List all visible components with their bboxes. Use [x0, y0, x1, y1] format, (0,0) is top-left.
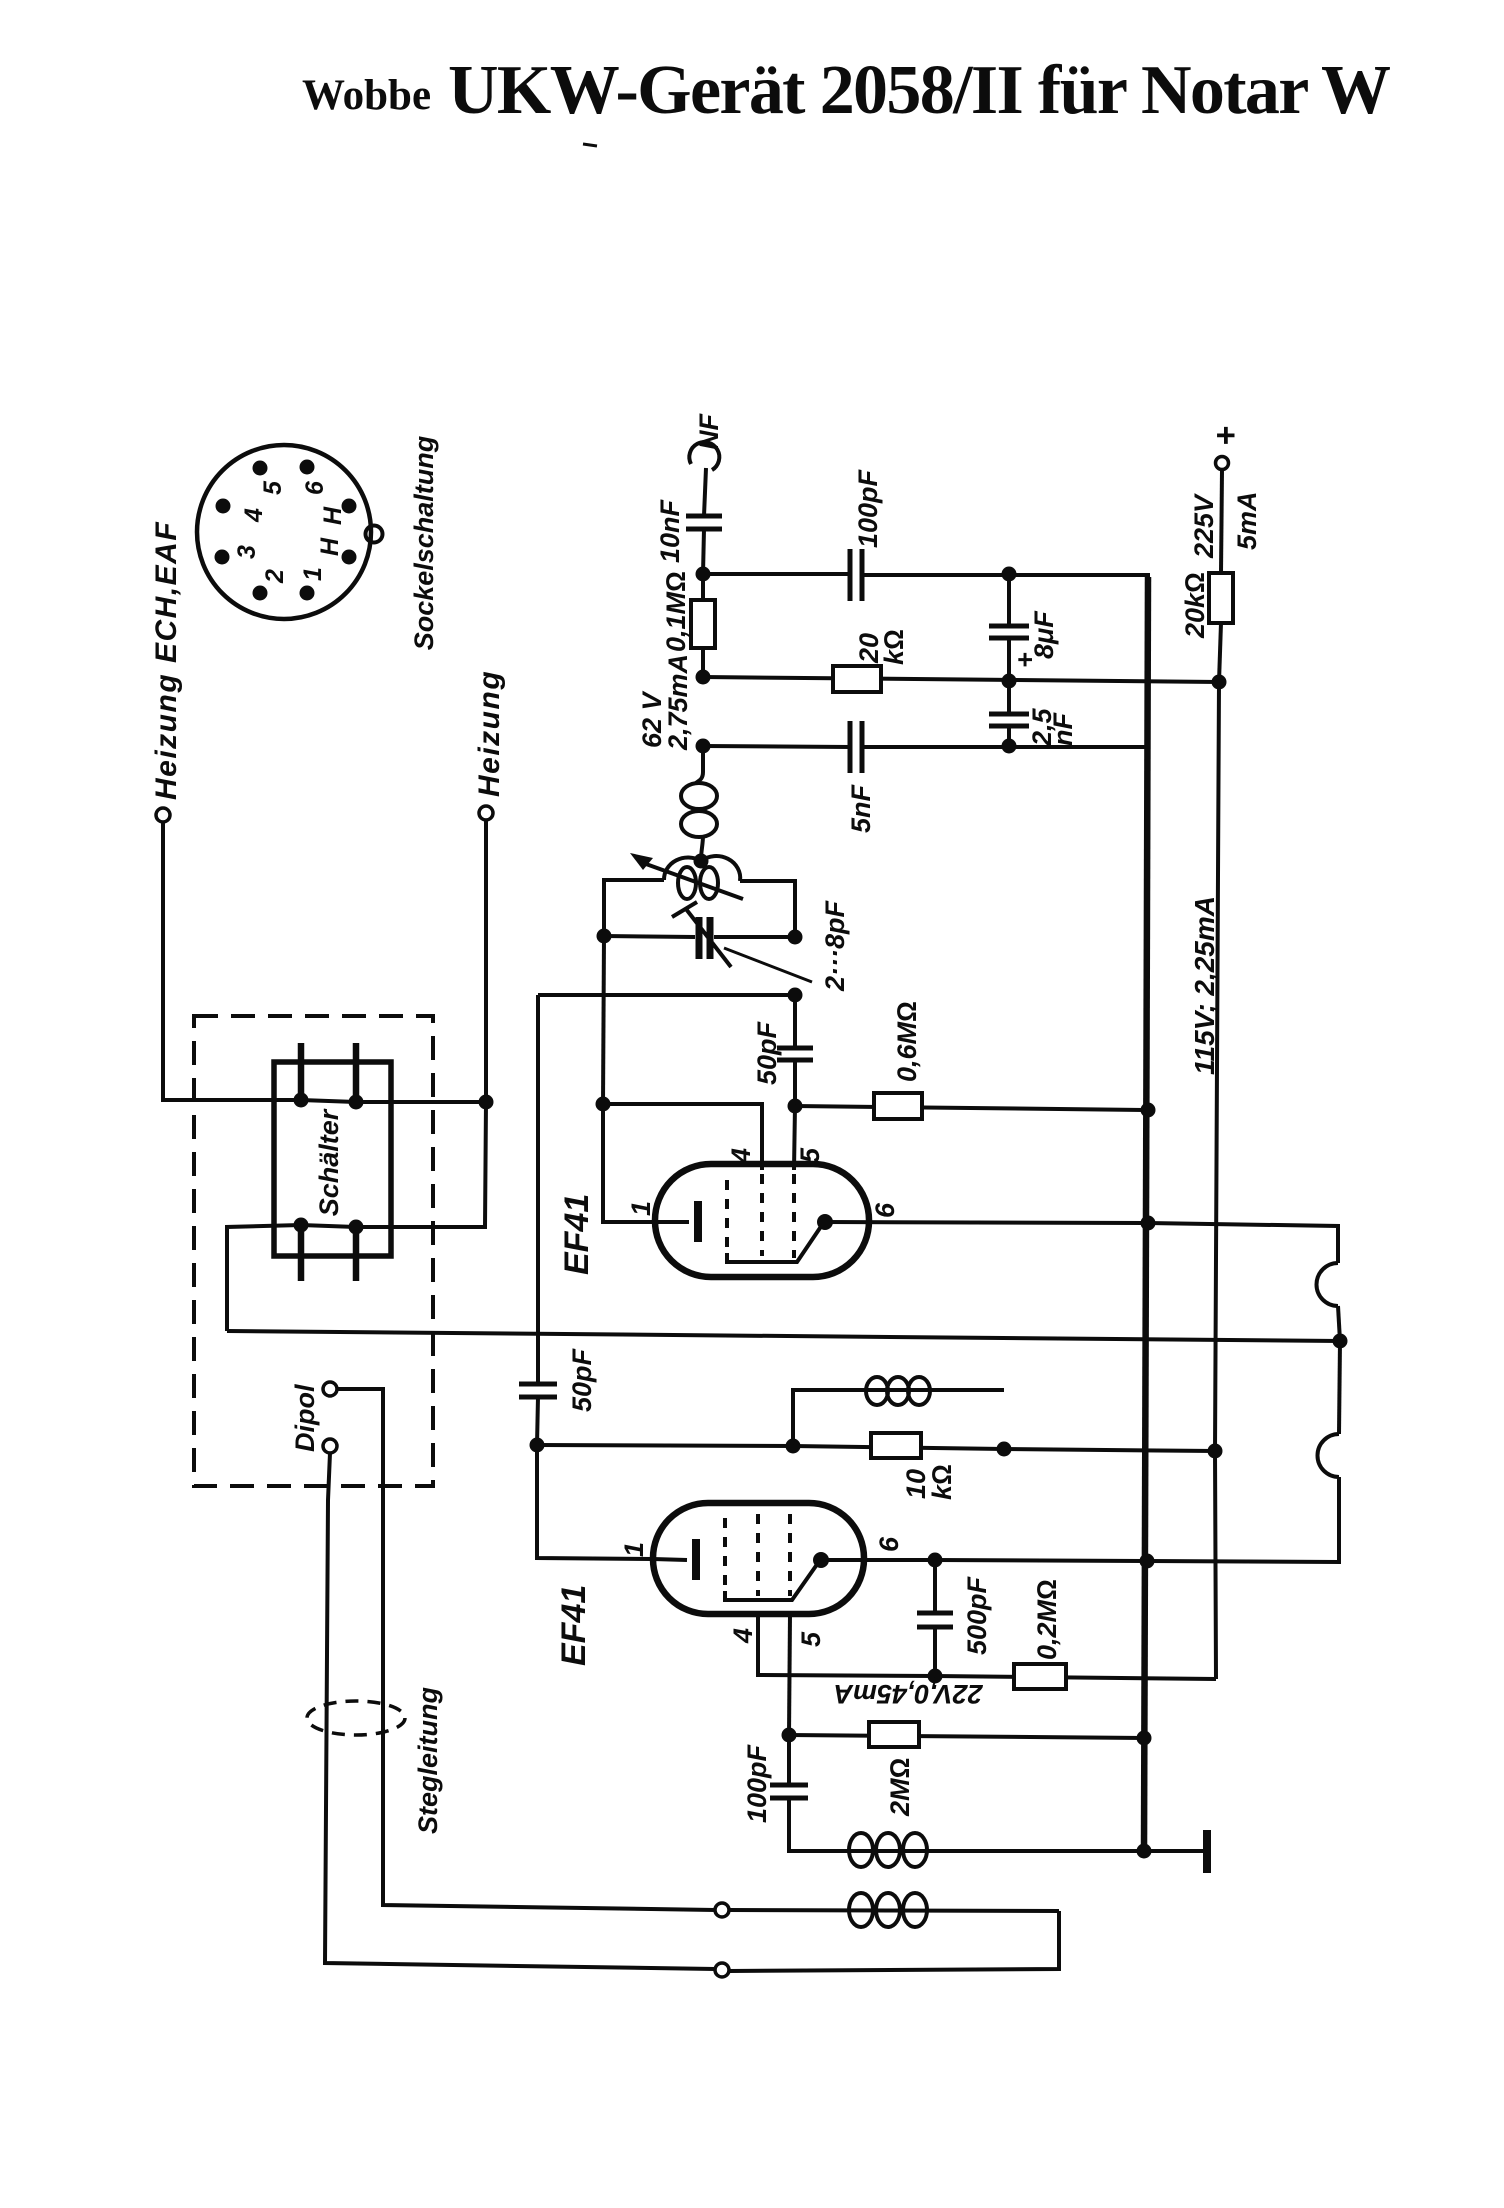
- svg-text:H: H: [316, 537, 344, 556]
- svg-text:50pF: 50pF: [567, 1347, 597, 1412]
- grid g2 dashed upper: [760, 1174, 764, 1256]
- node right loop feed: [1333, 1334, 1348, 1349]
- variable inductor tank coil: [630, 853, 743, 899]
- wire Heizung down: [484, 820, 488, 1102]
- node combo right: [997, 1442, 1012, 1457]
- label 62V 2,75mA: [637, 654, 693, 751]
- cathode lower: [653, 1559, 687, 1560]
- switch contact pin top-left: [298, 1043, 305, 1101]
- wire right loop bottom to anode lower: [821, 1477, 1339, 1562]
- wire 500pF to node K: [933, 1627, 937, 1676]
- anode structure lower: [725, 1563, 818, 1600]
- dashed oval Stegleitung: [307, 1701, 405, 1735]
- pin labels upper tube: [626, 1147, 900, 1218]
- node K: [928, 1669, 943, 1684]
- inductor RF choke top: [681, 746, 717, 861]
- wire 10nF to node A: [703, 529, 704, 574]
- node switch pin joints: [294, 1093, 309, 1108]
- wire anode row left of 5nF: [703, 746, 850, 747]
- terminal feeder plug upper: [715, 1903, 729, 1917]
- terminal NF output: [689, 413, 724, 470]
- wire Heizung ECH,EAF down and right: [163, 822, 301, 1100]
- node rail 2M: [1137, 1731, 1152, 1746]
- op-amp substitute: tube EF41 upper: [558, 1147, 900, 1277]
- svg-text:EF41: EF41: [555, 1585, 593, 1666]
- svg-text:Wobbe: Wobbe: [302, 72, 431, 119]
- inductor antenna coil: [729, 1893, 1059, 1927]
- wire antenna loop right side: [729, 1911, 1059, 1971]
- svg-text:8μF: 8μF: [1029, 610, 1059, 659]
- terminal Heizung ECH,EAF: [150, 521, 183, 822]
- svg-text:5nF: 5nF: [846, 783, 876, 833]
- grid g3 dashed lower: [788, 1514, 792, 1596]
- terminal Dipol upper: [323, 1382, 337, 1396]
- svg-text:H: H: [319, 506, 347, 525]
- svg-text:20kΩ: 20kΩ: [1180, 572, 1210, 639]
- ground: [1144, 1830, 1207, 1873]
- wire node G down to pin5: [794, 1106, 795, 1170]
- resistor 20k ohm horizontal: [833, 629, 909, 692]
- terminal Heizung: [473, 670, 506, 820]
- wire dipole lower to feeder: [325, 1453, 715, 1969]
- svg-text:4: 4: [240, 508, 268, 523]
- node B screen junction: [696, 670, 711, 685]
- node tank cap left: [597, 929, 612, 944]
- svg-text:6: 6: [870, 1202, 900, 1218]
- inductor grid coupling coil: [843, 1833, 1144, 1867]
- svg-text:5: 5: [796, 1631, 826, 1647]
- wire screen row: [703, 677, 1219, 682]
- socket pin 4: [216, 499, 231, 514]
- wire 50pF to node G: [793, 1060, 797, 1106]
- capacitor 2,5nF: [989, 707, 1078, 747]
- svg-text:1: 1: [626, 1201, 656, 1216]
- node screen column: [1208, 1444, 1223, 1459]
- wire hop lower on right loop: [1318, 1434, 1340, 1477]
- capacitor 5nF: [846, 721, 876, 833]
- resistor 10k ohm: [793, 1433, 1004, 1500]
- node J: [530, 1438, 545, 1453]
- wire node J down to pin1 lower: [537, 1445, 653, 1559]
- node F screen feed: [1212, 675, 1227, 690]
- wire screen feed column down: [1215, 682, 1219, 1679]
- wire top row right of 100pF to rail corner: [862, 575, 1148, 580]
- capacitor trimmer 2..8pF: [672, 900, 850, 992]
- pin labels lower tube: [619, 1536, 904, 1647]
- node tank cap right: [788, 930, 803, 945]
- svg-text:EF41: EF41: [558, 1194, 596, 1275]
- svg-text:10nF: 10nF: [655, 498, 685, 563]
- wire node D to 2,5nF: [1007, 681, 1011, 714]
- wire heater return down-left: [227, 1102, 486, 1331]
- inductor 10k combo coil: [793, 1377, 1004, 1446]
- node rail anode upper: [1141, 1216, 1156, 1231]
- node L: [782, 1728, 797, 1743]
- wire pin5 lower down to node L: [789, 1614, 790, 1735]
- tube EF41 lower: [555, 1503, 904, 1666]
- node E: [1002, 739, 1017, 754]
- terminal feeder plug lower: [715, 1963, 729, 1977]
- node rail ground junction: [1137, 1844, 1152, 1859]
- wire node L down to 100pF: [787, 1735, 791, 1785]
- svg-text:+: +: [1207, 426, 1245, 446]
- switch contact pin top-right: [353, 1043, 360, 1103]
- node H tank-grid junction: [596, 1097, 611, 1112]
- resistor 20k ohm dropping: [1180, 572, 1233, 639]
- tube EF41 lower envelope: [653, 1503, 864, 1614]
- wire node G right through grid resistor: [795, 1106, 1148, 1110]
- wire anode upper to right loop: [825, 1222, 1338, 1263]
- wire heater bus to switch pins: [301, 1100, 486, 1102]
- wire anode lower down to 500pF: [933, 1560, 937, 1613]
- svg-text:5: 5: [795, 1147, 825, 1163]
- tube socket diagram ECH,EAF: [197, 435, 439, 650]
- capacitor 500pF: [917, 1575, 992, 1655]
- wire node H down to pin1: [603, 1104, 655, 1222]
- node anode lower branch: [928, 1553, 943, 1568]
- svg-text:50pF: 50pF: [752, 1020, 782, 1085]
- svg-text:2MΩ: 2MΩ: [885, 1758, 915, 1817]
- svg-text:5mA: 5mA: [1232, 491, 1262, 550]
- capacitor 8uF electrolytic: [989, 610, 1059, 668]
- socket pin 1: [300, 586, 315, 601]
- wire 8uF to node D: [1007, 638, 1011, 681]
- svg-text:kΩ: kΩ: [879, 629, 909, 665]
- resistor 0,2M ohm: [1014, 1579, 1066, 1689]
- grid g2 dashed lower: [756, 1514, 760, 1596]
- title: [302, 52, 1391, 129]
- wire node K left to pin4 lower: [758, 1614, 935, 1676]
- node rail anode lower: [1140, 1554, 1155, 1569]
- wire tank top side: [604, 880, 664, 936]
- wire tank lower row: [538, 993, 795, 997]
- svg-text:Heizung: Heizung: [473, 670, 506, 797]
- switch contact pin bottom-left: [298, 1225, 305, 1281]
- svg-text:22V,0,45mA: 22V,0,45mA: [833, 1679, 983, 1709]
- anode structure upper: [727, 1225, 822, 1262]
- wire tank right column to 50pF: [793, 995, 797, 1048]
- svg-text:Heizung ECH,EAF: Heizung ECH,EAF: [150, 521, 183, 800]
- svg-text:Schälter: Schälter: [314, 1108, 344, 1216]
- pin number labels: [233, 480, 347, 584]
- capacitor 100pF: [742, 1743, 808, 1823]
- svg-text:NF: NF: [694, 413, 724, 450]
- socket pin 5: [253, 461, 268, 476]
- svg-text:500pF: 500pF: [962, 1575, 992, 1655]
- socket pin H right: [342, 499, 357, 514]
- node decoupling top: [1002, 567, 1017, 582]
- svg-text:100pF: 100pF: [742, 1743, 772, 1823]
- wire node J to parallel combo: [537, 1445, 793, 1446]
- wire right loop mid: [1338, 1306, 1340, 1341]
- capacitor 10nF: [655, 498, 722, 563]
- capacitor 50pF antenna: [519, 1347, 597, 1412]
- tube EF41 upper envelope: [655, 1164, 869, 1277]
- socket circle: [197, 445, 371, 619]
- terminal B+ plus: [1207, 426, 1245, 470]
- terminal Dipol lower: [323, 1439, 337, 1453]
- svg-text:225V: 225V: [1189, 493, 1219, 559]
- node tank lower right: [788, 988, 803, 1003]
- wire right loop to lower hop: [1339, 1341, 1340, 1434]
- svg-text:0,1MΩ: 0,1MΩ: [661, 571, 691, 652]
- capacitor 50pF grid: [752, 1020, 813, 1085]
- wire node K right through 0,2M: [935, 1676, 1216, 1679]
- wire combo to screen column: [1004, 1449, 1215, 1451]
- svg-text:UKW-Gerät 2058/II für Notar W: UKW-Gerät 2058/II für Notar W: [448, 52, 1391, 129]
- svg-text:2: 2: [261, 569, 289, 584]
- wire anode row right of 5nF to rail: [862, 745, 1148, 749]
- node rail at 0,6M: [1141, 1103, 1156, 1118]
- resistor 0,1M ohm: [661, 571, 715, 652]
- svg-text:kΩ: kΩ: [927, 1464, 957, 1500]
- label 225V 5mA: [1189, 491, 1262, 559]
- svg-text:115V; 2,25mA: 115V; 2,25mA: [1189, 896, 1220, 1075]
- svg-text:Sockelschaltung: Sockelschaltung: [409, 435, 439, 650]
- grid g1 dashed upper: [725, 1180, 729, 1258]
- node heater junction: [479, 1095, 494, 1110]
- svg-text:nF: nF: [1048, 712, 1078, 746]
- resistor 2M ohm: [869, 1722, 919, 1817]
- resistor 0,6M ohm: [874, 1001, 922, 1119]
- wire dipole upper to feeder: [337, 1389, 715, 1910]
- node C anode-row junction: [696, 739, 711, 754]
- svg-text:2···8pF: 2···8pF: [820, 900, 850, 992]
- svg-text:100pF: 100pF: [853, 468, 883, 548]
- node A grid top junction: [696, 567, 711, 582]
- wire 50pF to node J: [537, 1397, 538, 1445]
- wire tank cap row: [604, 936, 695, 937]
- wire decoupling column upper: [1007, 574, 1011, 626]
- svg-text:6: 6: [301, 480, 329, 495]
- anode node upper: [817, 1214, 833, 1230]
- wire node L right through 2M to rail: [789, 1735, 1144, 1738]
- wire tank left column down to grid node: [603, 936, 604, 1104]
- svg-text:Dipol: Dipol: [290, 1384, 320, 1452]
- wire 0,1M to node B: [701, 648, 705, 677]
- socket pin H lower: [342, 550, 357, 565]
- svg-text:1: 1: [619, 1542, 649, 1557]
- socket key nub: [366, 526, 383, 543]
- socket pin 2: [253, 586, 268, 601]
- svg-text:2,75mA: 2,75mA: [663, 654, 693, 751]
- svg-text:4: 4: [726, 1148, 756, 1164]
- B+ rail thick: [1144, 577, 1148, 1851]
- wire node H to pin4: [603, 1104, 762, 1170]
- wire hop upper on right loop: [1317, 1263, 1339, 1306]
- svg-text:1: 1: [299, 567, 327, 581]
- svg-text:4: 4: [728, 1628, 758, 1644]
- anode node lower: [813, 1552, 829, 1568]
- node G grid1: [788, 1099, 803, 1114]
- stray mark under title: [583, 144, 597, 146]
- svg-text:0,6MΩ: 0,6MΩ: [892, 1001, 922, 1082]
- wire 20k to node F: [1219, 623, 1221, 682]
- grid g1 dashed lower: [723, 1518, 727, 1596]
- switch contact pin bottom-right: [353, 1227, 360, 1281]
- socket pin 3: [215, 550, 230, 565]
- wire 2,5nF to node E: [1007, 726, 1011, 746]
- wire long feed from switch to right side: [227, 1331, 1340, 1341]
- grid g3 dashed upper: [792, 1174, 796, 1258]
- capacitor 100pF coupling: [850, 468, 883, 601]
- wire 100pF to grid coil: [789, 1798, 843, 1851]
- antenna column wire 538: [536, 995, 540, 1384]
- svg-text:3: 3: [233, 545, 261, 559]
- svg-text:Stegleitung: Stegleitung: [413, 1686, 443, 1834]
- socket pin 6: [300, 460, 315, 475]
- switch box Schaelter: [274, 1062, 391, 1256]
- svg-text:6: 6: [874, 1536, 904, 1552]
- node tank top: [694, 854, 709, 869]
- svg-text:5: 5: [259, 480, 287, 495]
- node combo left: [786, 1439, 801, 1454]
- cathode upper: [655, 1220, 689, 1224]
- dashed tuner enclosure box: [194, 1016, 433, 1486]
- wire top row left of 100pF: [703, 572, 850, 576]
- svg-text:0,2MΩ: 0,2MΩ: [1032, 1579, 1062, 1660]
- wire NF to 10nF: [704, 468, 706, 516]
- wire B+ terminal to 20k resistor: [1221, 470, 1222, 573]
- node D: [1002, 674, 1017, 689]
